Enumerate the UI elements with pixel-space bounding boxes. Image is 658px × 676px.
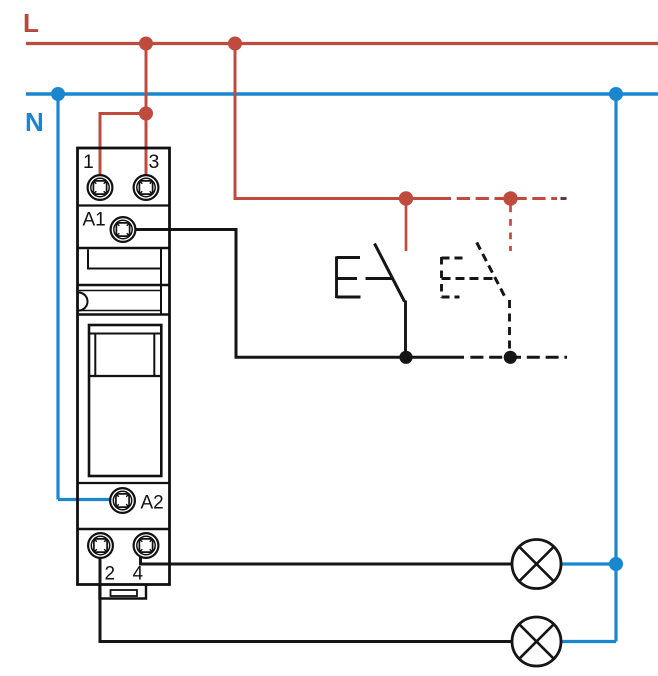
svg-text:3: 3 (149, 151, 160, 173)
svg-text:1: 1 (83, 151, 94, 173)
svg-text:N: N (25, 107, 44, 137)
svg-text:A1: A1 (83, 210, 106, 231)
svg-text:A2: A2 (141, 493, 164, 514)
svg-text:2: 2 (105, 564, 116, 585)
svg-text:4: 4 (133, 564, 144, 585)
svg-text:L: L (23, 8, 39, 38)
